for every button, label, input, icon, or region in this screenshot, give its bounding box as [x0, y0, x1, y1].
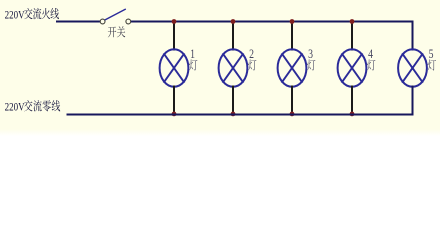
- wire: branch 3 bottom vertical: [291, 86, 293, 115]
- switch S1 (open knife switch): [100, 9, 131, 24]
- node: junction branch 1 / live rail: [172, 19, 177, 24]
- wire: branch 5 top vertical: [412, 22, 414, 51]
- wire: live rail from label to switch: [56, 21, 100, 23]
- lamp L3 (circle with X): [278, 49, 307, 86]
- wire: branch 3 top vertical: [291, 22, 293, 51]
- label 4灯: [367, 48, 375, 71]
- wire: branch 2 bottom vertical: [232, 86, 234, 115]
- label 1灯: [189, 48, 197, 71]
- lamp L5 (circle with X): [398, 49, 427, 86]
- wire: branch 1 top vertical: [173, 22, 175, 51]
- lamp L1 (circle with X): [160, 49, 189, 86]
- lamp L2 (circle with X): [219, 49, 248, 86]
- node: junction branch 3 / live rail: [290, 19, 295, 24]
- node: junction branch 3 / neutral rail: [290, 112, 295, 117]
- node: junction branch 2 / neutral rail: [231, 112, 236, 117]
- svg-text:3: 3: [308, 48, 313, 62]
- node: junction branch 4 / live rail: [350, 19, 355, 24]
- wire: branch 4 top vertical: [351, 22, 353, 51]
- node: junction branch 4 / neutral rail: [350, 112, 355, 117]
- node: junction branch 2 / live rail: [231, 19, 236, 24]
- wire: neutral rail: [67, 114, 414, 116]
- wire: branch 2 top vertical: [232, 22, 234, 51]
- svg-text:220V: 220V: [5, 9, 25, 21]
- wire: branch 4 bottom vertical: [351, 86, 353, 115]
- label 3灯: [307, 48, 315, 71]
- wire: branch 5 bottom vertical: [412, 86, 414, 115]
- svg-text:2: 2: [249, 48, 254, 62]
- svg-text:5: 5: [429, 48, 434, 62]
- svg-text:220V: 220V: [5, 102, 25, 114]
- label 5灯: [428, 48, 436, 71]
- label 2灯: [248, 48, 256, 71]
- wire: branch 1 bottom vertical: [173, 86, 175, 115]
- svg-text:1: 1: [190, 48, 195, 62]
- lamp L4 (circle with X): [338, 49, 367, 86]
- net L: 220V AC live-wire label 220V交流火线: [5, 8, 59, 22]
- node: junction branch 1 / neutral rail: [172, 112, 177, 117]
- switch label 开关: [108, 26, 125, 37]
- svg-text:4: 4: [368, 48, 373, 62]
- net N: 220V AC neutral-wire label 220V交流零线: [5, 100, 61, 114]
- wire: live rail from switch to right corner: [131, 21, 414, 23]
